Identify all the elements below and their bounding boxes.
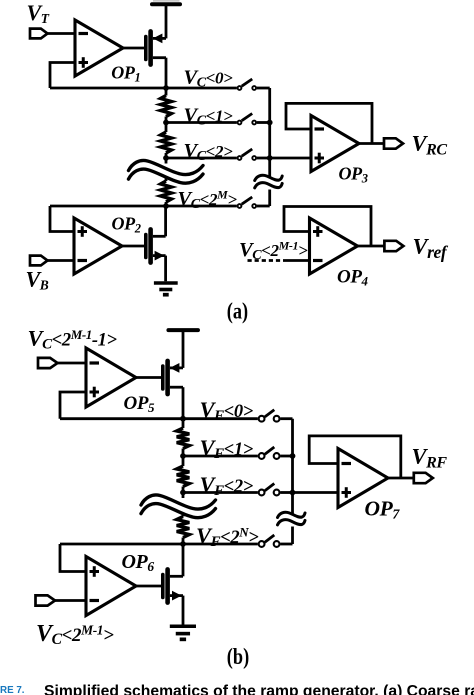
svg-text:VC<0>: VC<0> <box>184 67 234 91</box>
svg-text:VF<2N>: VF<2N> <box>196 523 258 550</box>
svg-text:VF<0>: VF<0> <box>200 397 253 424</box>
svg-text:RE 7.: RE 7. <box>0 685 25 695</box>
svg-text:VC<2M>: VC<2M> <box>178 188 238 213</box>
svg-text:VC<2M-1>: VC<2M-1> <box>36 621 114 648</box>
svg-text:VF<1>: VF<1> <box>200 435 253 462</box>
svg-text:Simplified schematics of the r: Simplified schematics of the ramp genera… <box>44 683 474 695</box>
svg-text:VC<1>: VC<1> <box>184 105 234 129</box>
svg-text:VC<2M-1>: VC<2M-1> <box>239 239 308 264</box>
svg-text:(a): (a) <box>227 297 248 324</box>
svg-text:VC<2>: VC<2> <box>184 140 234 164</box>
svg-text:VF<2>: VF<2> <box>200 472 253 499</box>
svg-text:(b): (b) <box>227 643 249 670</box>
